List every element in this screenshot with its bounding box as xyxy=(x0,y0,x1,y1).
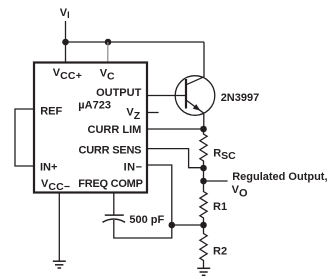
pin label REF xyxy=(40,105,62,117)
op-amp U1 uA723 box xyxy=(34,63,147,193)
pin label VZ xyxy=(126,106,140,122)
svg-text:REF: REF xyxy=(40,105,62,117)
svg-text:OUTPUT: OUTPUT xyxy=(96,87,142,99)
svg-text:VCC−: VCC− xyxy=(41,178,70,193)
capacitor C1 500 pF xyxy=(103,215,126,222)
pin stub VZ xyxy=(147,112,159,114)
junction dot regulated output xyxy=(200,178,207,185)
junction dot at VCC+ xyxy=(62,39,69,46)
wire feedback horizontal xyxy=(172,224,204,226)
junction dot emitter / CURR LIM xyxy=(200,126,207,133)
wire IN- feedback xyxy=(147,165,172,225)
wire VCC- drop xyxy=(58,194,60,262)
ground right xyxy=(197,268,210,275)
node VI label xyxy=(60,7,70,20)
svg-text:CURR SENS: CURR SENS xyxy=(78,144,141,156)
wire VI vertical xyxy=(65,21,67,63)
label 500 pF xyxy=(129,214,164,226)
resistor R1 xyxy=(200,181,207,225)
wire collector drop xyxy=(203,42,205,77)
label R2 xyxy=(213,246,227,258)
ground left xyxy=(53,261,66,268)
svg-text:FREQ COMP: FREQ COMP xyxy=(78,178,142,190)
junction dot feedback xyxy=(169,222,176,229)
pin label VCC+ xyxy=(53,67,82,82)
label RSC xyxy=(213,147,236,161)
pin label FREQ COMP xyxy=(78,178,142,190)
wire output tap xyxy=(204,180,228,182)
svg-text:VCC+: VCC+ xyxy=(53,67,82,82)
pin label VCC- xyxy=(41,178,70,193)
device label uA723 xyxy=(78,99,111,111)
svg-text:IN−: IN− xyxy=(124,161,143,173)
wire emitter to node xyxy=(203,113,205,130)
svg-text:RSC: RSC xyxy=(213,147,236,161)
svg-text:VZ: VZ xyxy=(126,106,140,122)
wire RSC to output node xyxy=(203,168,205,181)
junction dot at VC xyxy=(105,39,112,46)
svg-text:VI: VI xyxy=(60,7,70,20)
junction dot R1/R2 xyxy=(200,222,207,229)
wire capacitor return xyxy=(114,220,172,238)
svg-text:VC: VC xyxy=(100,68,115,83)
wire CURR SENS xyxy=(147,149,204,168)
wire FREQ COMP drop xyxy=(113,194,115,215)
wire REF to IN+ loop xyxy=(15,109,34,166)
svg-text:2N3997: 2N3997 xyxy=(221,92,260,104)
label 2N3997 xyxy=(221,92,260,104)
svg-text:µA723: µA723 xyxy=(78,99,111,111)
transistor Q1 2N3997 xyxy=(175,76,215,116)
pin label IN- xyxy=(124,161,143,173)
pin label IN+ xyxy=(40,161,57,173)
label R1 xyxy=(213,201,227,213)
resistor RSC xyxy=(200,129,207,168)
svg-text:R2: R2 xyxy=(213,246,227,258)
svg-text:R1: R1 xyxy=(213,201,227,213)
pin label OUTPUT xyxy=(96,87,142,99)
wire top rail xyxy=(66,41,205,43)
label Regulated Output, VO xyxy=(232,171,328,199)
pin label CURR SENS xyxy=(78,144,141,156)
wire VC drop xyxy=(107,42,109,63)
svg-text:VO: VO xyxy=(232,184,248,199)
junction dot RSC bottom / CURR SENS xyxy=(200,165,207,172)
pin label VC xyxy=(100,68,115,83)
svg-text:Regulated Output,: Regulated Output, xyxy=(232,171,327,183)
svg-text:IN+: IN+ xyxy=(40,161,57,173)
svg-text:500 pF: 500 pF xyxy=(129,214,164,226)
wire CURR LIM xyxy=(147,128,204,130)
pin label CURR LIM xyxy=(88,124,142,136)
wire OUTPUT to transistor base xyxy=(147,95,186,97)
svg-text:CURR LIM: CURR LIM xyxy=(88,124,142,136)
resistor R2 xyxy=(200,225,207,268)
